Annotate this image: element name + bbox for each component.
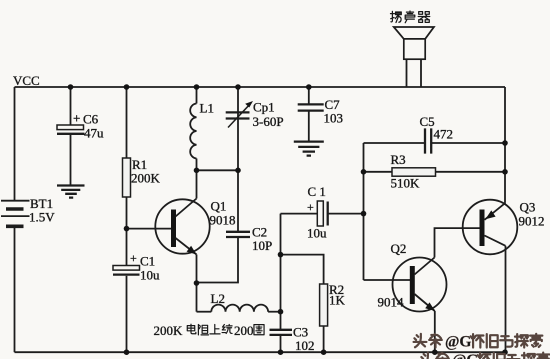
junction R1/C1/Q1 base xyxy=(124,226,130,232)
junction C7/VCC xyxy=(306,84,312,90)
junction C1/ground rail xyxy=(124,349,130,355)
svg-text:+: + xyxy=(130,251,137,265)
svg-text:Cp1: Cp1 xyxy=(253,100,275,115)
wire C1 to bottom xyxy=(126,276,128,352)
junction Q1 emitter/C2 xyxy=(194,280,200,286)
capacitor Cp1 (variable, 3-60P) xyxy=(226,87,284,170)
svg-text:47u: 47u xyxy=(84,126,104,141)
watermark row 1 xyxy=(414,333,543,350)
junction C6/VCC xyxy=(68,84,74,90)
svg-text:10u: 10u xyxy=(307,226,327,241)
wire C6 branch xyxy=(70,87,72,125)
svg-text:Q1: Q1 xyxy=(211,199,227,214)
svg-text:472: 472 xyxy=(434,127,454,142)
inductor L1 xyxy=(190,87,214,170)
svg-text:@G: @G xyxy=(452,352,478,359)
svg-text:C 1: C 1 xyxy=(308,184,326,199)
svg-text:VCC: VCC xyxy=(13,73,40,88)
junction L1/Q1 collector xyxy=(194,168,200,174)
ground below C6 xyxy=(57,186,85,198)
inductor L2 xyxy=(197,291,281,312)
wire Q2 emitter to bottom xyxy=(434,311,436,352)
svg-text:C5: C5 xyxy=(420,114,435,129)
junction Q2 emitter/ground rail xyxy=(432,349,438,355)
wire left rail lower xyxy=(14,227,16,352)
junction L1/VCC xyxy=(194,84,200,90)
transistor Q1 (9018) xyxy=(155,170,235,254)
capacitor C3 xyxy=(270,325,315,354)
svg-text:103: 103 xyxy=(324,111,344,126)
svg-text:L1: L1 xyxy=(200,101,214,116)
capacitor C6 xyxy=(57,111,104,141)
junction C3/ground rail xyxy=(278,349,284,355)
svg-text:C1: C1 xyxy=(140,254,155,269)
transistor Q3 (9012, PNP) xyxy=(463,200,545,255)
svg-text:102: 102 xyxy=(295,338,315,353)
wire L1 bottom to Cp1 bottom xyxy=(197,169,239,171)
junction R3 right rail xyxy=(502,169,508,175)
transistor Q2 (9014) xyxy=(378,241,447,312)
capacitor C4 ("C 1" 10u) xyxy=(281,184,364,241)
capacitor C5 xyxy=(364,114,506,154)
svg-text:+: + xyxy=(73,111,80,126)
svg-text:10P: 10P xyxy=(252,238,272,253)
wire top rail VCC xyxy=(15,86,506,88)
wire C6 to ground xyxy=(70,135,72,185)
junction R2/ground rail xyxy=(321,349,327,355)
junction Q3 collector/ground rail xyxy=(502,349,508,355)
junction R1/VCC xyxy=(124,84,130,90)
svg-text:200K: 200K xyxy=(131,171,161,186)
capacitor C2 xyxy=(197,170,273,282)
svg-text:R3: R3 xyxy=(391,152,406,167)
svg-text:1.5V: 1.5V xyxy=(29,210,55,225)
svg-text:Q3: Q3 xyxy=(520,200,536,215)
battery BT1 xyxy=(1,196,55,226)
svg-text:Q2: Q2 xyxy=(391,241,407,256)
wire R1 to node xyxy=(126,197,128,266)
node: L2/C3/C4 junction rail xyxy=(280,214,282,330)
resistor R3 xyxy=(364,152,506,191)
svg-text:9012: 9012 xyxy=(519,214,545,229)
wire bottom rail xyxy=(15,351,506,353)
resistor R1 xyxy=(123,157,161,197)
wire Q1 emitter down xyxy=(196,255,198,312)
wire Q1 base xyxy=(127,228,172,230)
svg-text:C6: C6 xyxy=(83,112,99,127)
svg-text:@G: @G xyxy=(445,333,471,350)
capacitor C7 xyxy=(298,87,343,141)
junction Cp1/VCC xyxy=(235,84,241,90)
svg-text:1K: 1K xyxy=(329,293,346,308)
junction C4 right xyxy=(361,211,367,217)
svg-text:10u: 10u xyxy=(140,268,160,283)
svg-text:+: + xyxy=(307,200,314,214)
resistor R2 xyxy=(320,282,346,326)
junction C4/R2 node xyxy=(278,252,284,258)
watermark row 2 (clipped at bottom edge) xyxy=(421,352,550,359)
wire Q3 base from Q2 collector xyxy=(435,228,481,257)
junction L2/C3 xyxy=(278,309,284,315)
svg-text:9018: 9018 xyxy=(210,213,236,228)
label 200K winding note xyxy=(154,323,265,338)
wire R1 branch xyxy=(126,87,128,158)
junction C5 right rail xyxy=(502,140,508,146)
svg-text:3-60P: 3-60P xyxy=(253,114,284,129)
svg-text:9014: 9014 xyxy=(378,295,405,310)
junction Cp1/C2 xyxy=(235,168,241,174)
svg-text:L2: L2 xyxy=(211,291,225,306)
capacitor C1 xyxy=(113,251,160,283)
svg-text:200: 200 xyxy=(234,323,254,338)
speaker (扬声器) xyxy=(390,11,433,87)
svg-text:510K: 510K xyxy=(391,176,421,191)
wire left rail xyxy=(14,87,16,200)
wire node to R2 xyxy=(281,255,324,284)
wire Q2 base xyxy=(364,279,411,281)
wire right rail xyxy=(504,87,506,203)
svg-text:200K: 200K xyxy=(154,323,184,338)
wire mid-left rail xyxy=(363,143,365,280)
junction R3 left xyxy=(361,169,367,175)
wire R2 to bottom xyxy=(323,326,325,352)
ground below C7 xyxy=(294,142,324,156)
